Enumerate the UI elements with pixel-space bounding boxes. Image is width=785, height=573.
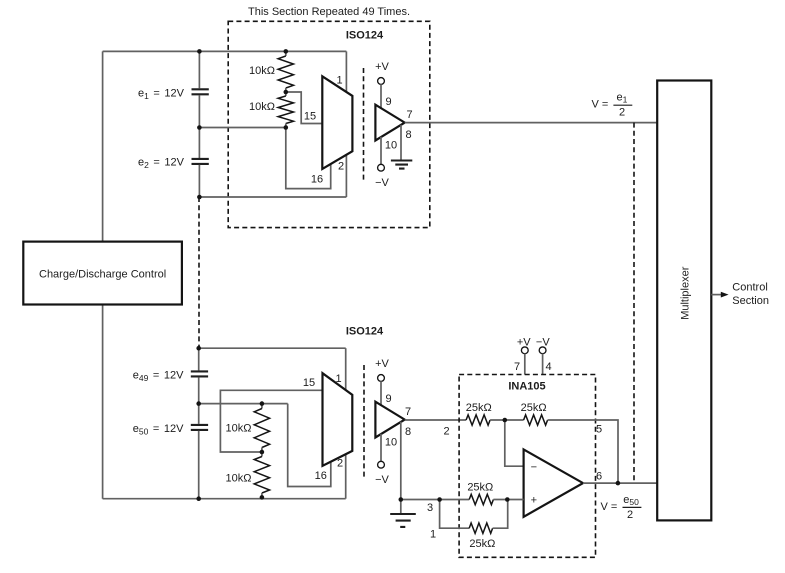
ground (bottom ISO124 output common): [390, 514, 416, 527]
resistor 10k lower (top cell) zigzag: [278, 96, 293, 124]
svg-text:5: 5: [596, 424, 602, 436]
wire: -V pin 4 lead: [542, 354, 544, 375]
wire: e49-e50 midpoint tap: [199, 403, 288, 405]
ISO124 input stage trapezoid (bottom): [323, 373, 353, 466]
svg-text:4: 4: [545, 361, 551, 373]
svg-text:16: 16: [311, 174, 323, 186]
wire: summing junction down to inverting input: [505, 420, 524, 466]
svg-text:25kΩ: 25kΩ: [466, 402, 492, 414]
resistor 25k feedback: [524, 415, 548, 425]
battery cell e50 = 12V plates: [191, 425, 208, 430]
svg-text:7: 7: [514, 361, 520, 373]
node: divider top (bottom cell): [260, 401, 265, 406]
svg-text:15: 15: [304, 111, 316, 123]
node: top rail / battery stack: [197, 49, 202, 54]
wire: -V into amp: [380, 434, 382, 462]
resistor 10k upper (top cell) zigzag: [278, 56, 293, 88]
wire: +V pin 7 lead: [524, 354, 526, 375]
svg-text:Multiplexer: Multiplexer: [680, 266, 692, 320]
wire: lower ISO124 output to INA105 pin 2: [405, 419, 466, 421]
svg-text:10kΩ: 10kΩ: [249, 101, 275, 113]
wire: pin3 resistor to noninverting input: [493, 499, 523, 501]
resistor 25k ground sense (pin 1): [469, 523, 492, 533]
wire: between input resistor and feedback resistor: [490, 419, 523, 421]
node: summing junction: [503, 418, 508, 423]
svg-text:15: 15: [303, 377, 315, 389]
svg-text:10kΩ: 10kΩ: [249, 65, 275, 77]
wire: pin 16 route from divider bottom: [286, 128, 331, 189]
svg-text:7: 7: [405, 406, 411, 418]
node: top rail / divider top: [284, 49, 289, 54]
ISO124 output amp triangle (bottom): [375, 402, 404, 438]
svg-text:10: 10: [385, 437, 397, 449]
resistor 10k upper (bottom cell): [261, 404, 263, 409]
svg-text:8: 8: [405, 426, 411, 438]
wire: top rail of lower cell: [199, 347, 346, 349]
dashed box: repeated section (top ISO124 cell): [228, 21, 430, 227]
svg-text:9: 9: [385, 96, 391, 108]
node: divider bottom (pin 16): [284, 125, 289, 130]
svg-text:−V: −V: [375, 177, 389, 189]
wire: ground node to pin 3: [401, 499, 469, 501]
wire: pin 2 stub: [345, 155, 347, 197]
node: e1-e2 midpoint: [197, 125, 202, 130]
wire: bottom rail to pin 2 stub of lower ISO124: [103, 498, 346, 500]
svg-text:10kΩ: 10kΩ: [226, 423, 252, 435]
node: divider midpoint (pin 15): [284, 90, 289, 95]
svg-text:25kΩ: 25kΩ: [521, 402, 547, 414]
svg-text:V =: V =: [601, 501, 618, 513]
isolation barrier dashes (bottom): [363, 365, 365, 478]
resistor 10k upper (top cell) leads: [285, 51, 287, 56]
resistor 25k noninverting (pin 3): [469, 494, 493, 504]
node: ground stub junction: [399, 497, 404, 502]
node: bottom of e2: [197, 195, 202, 200]
wire: battery stack segment below e2: [198, 165, 200, 197]
svg-text:2: 2: [338, 161, 344, 173]
node: divider midpoint (bottom cell): [260, 450, 265, 455]
wire: +V to output amp: [380, 84, 382, 108]
Multiplexer box U2: [657, 81, 711, 521]
svg-text:1: 1: [336, 75, 342, 87]
svg-text:2: 2: [443, 426, 449, 438]
wire: midpoint tap e1/e2 to divider bottom: [199, 127, 285, 129]
wire: +V into amp: [380, 381, 382, 405]
ground (top ISO124 output common): [391, 161, 412, 169]
Charge/Discharge Control box U3: [23, 242, 182, 305]
node: noninverting input junction: [505, 497, 510, 502]
node: output junction with pin 5 leg: [616, 481, 621, 486]
wire: pin 8 to ground: [400, 125, 402, 161]
svg-text:25kΩ: 25kΩ: [469, 538, 495, 550]
wire: stack segment below e50: [198, 431, 200, 499]
svg-text:Section: Section: [732, 295, 769, 307]
svg-text:−: −: [531, 461, 537, 473]
wire: stack segment above e49: [198, 348, 200, 370]
wire: pin 1 resistor up to noninverting node: [493, 500, 508, 529]
svg-text:25kΩ: 25kΩ: [467, 481, 493, 493]
wire: battery stack segment e1 to e2: [198, 95, 200, 158]
wire: pin 1 stub: [345, 51, 347, 92]
svg-text:+V: +V: [375, 358, 389, 370]
node: e50 bottom on return rail: [196, 496, 201, 501]
battery cell e1 = 12V plates: [192, 89, 209, 94]
svg-text:−V: −V: [375, 474, 389, 486]
arrow: multiplexer output: [711, 294, 722, 296]
svg-text:8: 8: [405, 129, 411, 141]
dashed link: repeated outputs bus: [633, 123, 635, 484]
svg-text:ISO124: ISO124: [346, 326, 384, 338]
dashed link: battery stack continues (cells 3..49): [198, 197, 200, 348]
wire: pin 1 loop lower leg: [440, 500, 470, 529]
wire: left vertical into Charge/Discharge Control top: [102, 51, 104, 241]
wire: pin 16 route (bottom cell): [288, 404, 331, 487]
svg-text:3: 3: [427, 502, 433, 514]
battery cell e49 = 12V plates: [191, 371, 208, 376]
resistor 10k lower (top cell) leads: [285, 92, 287, 96]
svg-text:+V: +V: [375, 61, 389, 73]
label V = e50/2: [601, 494, 642, 521]
wire: pin 2 stub (bottom): [345, 454, 347, 498]
wire: -V to output amp: [380, 137, 382, 165]
battery cell e2 = 12V plates: [192, 159, 209, 164]
wire: bottom return of top cell: [199, 196, 346, 198]
svg-text:6: 6: [596, 471, 602, 483]
resistor 25k input (pin 2 side): [466, 415, 490, 425]
svg-text:1: 1: [430, 529, 436, 541]
wire: stack segment e49 to e50: [198, 377, 200, 424]
isolation barrier dashes (top): [363, 68, 365, 181]
svg-text:V =: V =: [592, 99, 609, 111]
label V = e1/2: [592, 92, 633, 119]
wire: pin 8 stub to ground node: [400, 422, 402, 514]
svg-text:2: 2: [619, 106, 625, 118]
svg-text:16: 16: [315, 470, 327, 482]
svg-text:7: 7: [406, 109, 412, 121]
node: pin 3 junction: [437, 497, 442, 502]
svg-text:9: 9: [385, 393, 391, 405]
svg-text:Control: Control: [732, 282, 767, 294]
ISO124 input stage trapezoid (top): [322, 76, 352, 169]
svg-text:ISO124: ISO124: [346, 30, 384, 42]
wire: battery stack segment above e1: [198, 51, 200, 88]
svg-text:2: 2: [627, 509, 633, 521]
-V terminal (top ISO124): [378, 164, 385, 171]
node: lower cell top: [196, 346, 201, 351]
node: e49-e50 midpoint: [196, 401, 201, 406]
op-amp A1 (INA105): [524, 449, 583, 516]
svg-text:+: +: [531, 495, 537, 507]
svg-text:10kΩ: 10kΩ: [226, 473, 252, 485]
-V terminal (bottom ISO124): [378, 461, 385, 468]
wire: pin 15 route from divider midpoint: [286, 92, 323, 124]
wire: pin 15 route (bottom cell): [220, 390, 322, 452]
svg-text:INA105: INA105: [508, 380, 545, 392]
wire: top rail from left branch to pin 1 stub: [103, 50, 347, 52]
resistor 10k lower (bottom cell): [261, 452, 263, 457]
wire: op-amp output to multiplexer, V = e50/2 net: [583, 482, 657, 484]
wire: pin 1 stub (bottom): [345, 348, 347, 390]
wire: left vertical from Charge/Discharge Control bottom: [102, 305, 104, 499]
wire: feedback resistor to pin 5 leg: [548, 420, 618, 483]
ISO124 output amp triangle (top): [375, 105, 404, 141]
svg-text:This Section Repeated 49 Times: This Section Repeated 49 Times.: [248, 6, 410, 18]
svg-text:10: 10: [385, 140, 397, 152]
dashed box: INA105: [459, 375, 595, 558]
wire: output of top ISO124 to multiplexer, V = e1/2 net: [405, 122, 658, 124]
node: divider bottom on return rail: [260, 495, 265, 500]
svg-text:Charge/Discharge Control: Charge/Discharge Control: [39, 268, 166, 280]
